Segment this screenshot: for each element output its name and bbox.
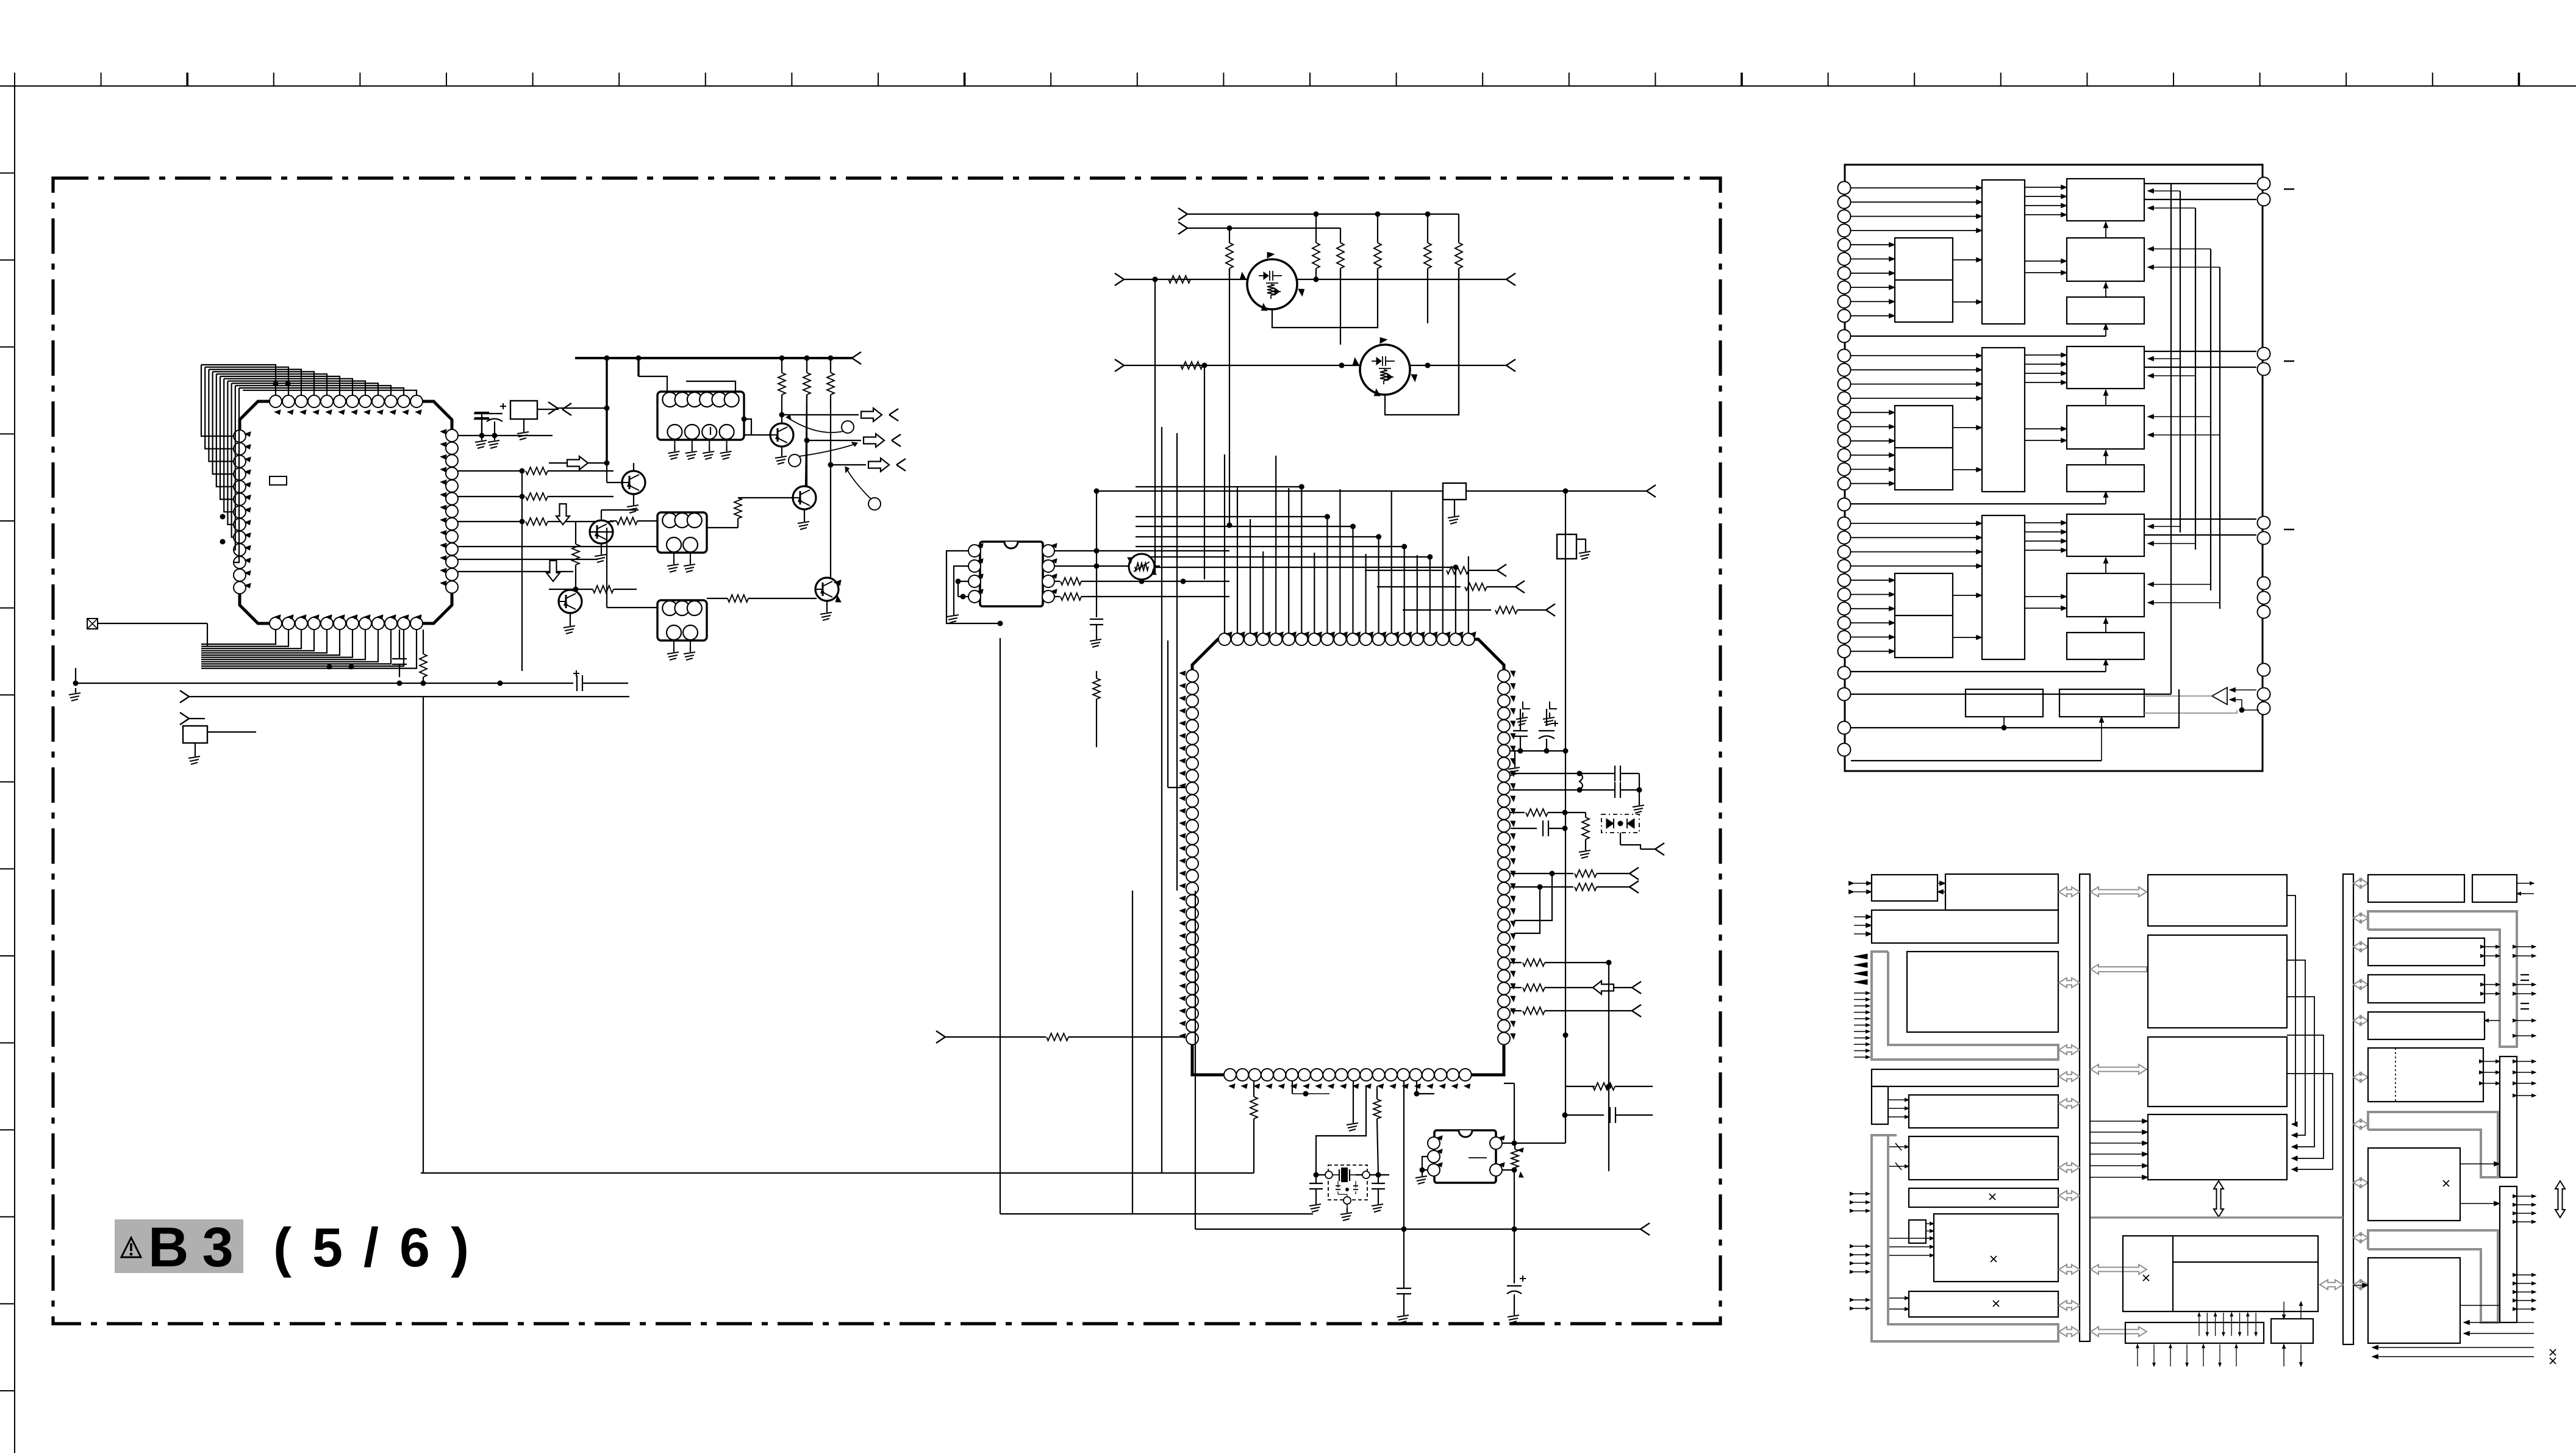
resistor R11	[572, 544, 579, 565]
signal arrow A5	[864, 434, 884, 447]
IC U1 (left QFP microprocessor)	[240, 401, 452, 623]
block M2	[2148, 935, 2287, 1028]
vertical arrow VA1	[2214, 1181, 2224, 1217]
block L-A1	[1872, 875, 1937, 901]
connector J20	[1640, 848, 1655, 850]
Q8 loop wires	[1385, 268, 1459, 415]
capacitor C11	[1315, 1175, 1317, 1183]
wire net long	[1097, 490, 1443, 492]
dual FET Q7	[1247, 259, 1297, 309]
dual FET Q8	[1360, 345, 1410, 395]
resistor R5	[778, 373, 785, 395]
block M4	[2148, 1114, 2287, 1180]
block R8	[2368, 1148, 2460, 1221]
connector J8	[548, 402, 557, 408]
rail x2638	[1608, 963, 1609, 1171]
U1 bottom fan-out wires	[201, 630, 276, 644]
module M3	[1443, 483, 1466, 500]
M5-BB2 arrow	[2320, 1280, 2343, 1290]
module boundary outline (dash-dot)	[53, 178, 1720, 1324]
U4 right wires	[1054, 550, 1229, 551]
block M5	[2123, 1236, 2318, 1311]
resistor R26	[1511, 873, 1573, 874]
transistor Q4	[793, 486, 816, 509]
resistor R27	[1511, 886, 1573, 888]
resistor R13	[1229, 228, 1230, 243]
connector J16	[1515, 581, 1525, 587]
block L-F	[1909, 1291, 2058, 1317]
block R10	[2368, 1258, 2460, 1343]
resistor R30	[1511, 1010, 1522, 1011]
wire drop 2	[637, 358, 639, 376]
M4 left inputs	[2090, 1121, 2148, 1122]
resistor R21	[1365, 570, 1442, 571]
page margin rulers	[15, 85, 2576, 87]
U2 left rail	[1132, 891, 1133, 1214]
capacitor C12	[1378, 1175, 1379, 1183]
wire pin jog	[1416, 1081, 1417, 1094]
block L-C1	[1872, 1069, 2058, 1086]
U3 left wires	[1422, 1157, 1428, 1170]
resistor R10	[593, 586, 614, 593]
capacitor C1	[474, 413, 490, 414]
fork J19	[936, 1031, 945, 1037]
U1 right wires with series resistors R1-R3	[458, 470, 522, 472]
signal arrow A6	[868, 458, 889, 472]
resistor R18	[1458, 214, 1459, 243]
wire link 2	[807, 440, 861, 441]
ground G2	[195, 752, 196, 756]
capacitor C2 (polarized)	[487, 413, 503, 414]
block R1	[2368, 875, 2464, 902]
resistor R36	[1054, 596, 1060, 597]
connector J25	[1640, 1223, 1650, 1229]
block R4	[2368, 975, 2485, 1003]
arrow A7	[1593, 981, 1614, 994]
transistor Q6	[815, 578, 839, 601]
rail down x2567	[1565, 491, 1566, 1143]
signal arrow A3 (down)	[546, 561, 560, 581]
regulator module M1	[510, 401, 537, 419]
connector J18	[1647, 485, 1656, 491]
U4 left wires	[946, 551, 1000, 623]
transistor Q5	[559, 590, 582, 613]
block diagram 1 frame	[1845, 165, 2263, 771]
wire bottom rail	[76, 683, 427, 684]
capacitor C13 (pol)	[1507, 1285, 1522, 1286]
resistor R16	[1377, 214, 1378, 243]
ground G6	[1353, 1081, 1354, 1118]
wire input 1	[549, 462, 607, 464]
block R5	[2368, 1012, 2485, 1039]
resistor R9	[734, 498, 742, 518]
diagram1 feedback rails	[2180, 191, 2181, 533]
resistor R32	[1253, 1081, 1254, 1097]
crystal feed wire	[1316, 1086, 1366, 1175]
resistor R31	[1565, 1086, 1595, 1087]
resonator array Z1	[657, 392, 744, 440]
L-A wires	[1937, 883, 1945, 884]
node bus lower-left	[98, 623, 207, 624]
wire collector link	[782, 414, 859, 415]
resistor R34	[1511, 1149, 1519, 1168]
Q7 loop wires	[1272, 268, 1378, 328]
stub S1	[1523, 701, 1530, 709]
block R3	[2368, 938, 2485, 966]
wire input line 1	[1124, 279, 1506, 280]
wire lower bus	[189, 696, 629, 697]
connector J12	[1506, 273, 1515, 279]
signal arrow A1	[567, 456, 588, 470]
connector J15	[1497, 564, 1506, 570]
connector J14	[1506, 359, 1515, 365]
block N	[2125, 1322, 2264, 1343]
diagram1 blocks	[1982, 180, 2025, 324]
right edge arrows 2	[2517, 1196, 2536, 1197]
gray frame GB2	[1872, 1135, 2058, 1341]
GB1 input arrows	[1854, 954, 1867, 959]
adjust point P3	[868, 498, 881, 510]
power bus wire	[575, 357, 852, 359]
wire y1231	[1511, 750, 1565, 752]
resistor R4	[423, 630, 424, 654]
resistor R33	[1376, 1086, 1378, 1099]
M4 input staircase wires	[2287, 895, 2295, 1124]
connector J9	[1178, 208, 1187, 214]
loop wires	[1514, 874, 1552, 920]
U3 right wires	[1502, 1143, 1514, 1144]
capacitor C4 (electrolytic)	[427, 683, 573, 684]
transistor Q3	[590, 520, 613, 544]
bar RB3	[2500, 1186, 2517, 1322]
module M4	[1557, 534, 1576, 559]
resistor R24	[1511, 812, 1525, 813]
resistor R15	[1340, 228, 1341, 243]
stub S2	[1550, 701, 1557, 709]
resistor R35	[1054, 581, 1060, 582]
sheet label background	[115, 1219, 243, 1273]
wire L-C join	[1639, 773, 1640, 800]
gray frame GB1	[1872, 952, 2058, 1060]
wire net V2	[1187, 228, 1340, 229]
bar RB2	[2500, 1057, 2517, 1177]
block R1b	[2472, 875, 2517, 902]
block L-B1	[1907, 952, 2058, 1032]
wire Z2 right	[707, 527, 738, 528]
long rail wires	[1154, 279, 1156, 573]
wire link 3	[831, 464, 866, 465]
signal arrow A2 (down)	[556, 504, 570, 525]
capacitor C9	[1511, 828, 1537, 829]
connector J4	[852, 352, 861, 358]
connector J21	[1630, 867, 1639, 874]
diode pair D1 D2 (dashed box)	[1601, 814, 1639, 833]
adjust point P2	[789, 454, 801, 467]
svg-text:(5/6): (5/6)	[273, 1218, 490, 1279]
block M1	[2148, 875, 2287, 926]
capacitor C7	[1580, 773, 1615, 774]
wire long rail y1923	[421, 1172, 1254, 1174]
connector J22	[1630, 881, 1639, 887]
block L-D2	[1909, 1188, 2058, 1207]
IC U2 (main LSI QFP)	[1192, 639, 1504, 1075]
connector J11	[1115, 273, 1124, 279]
connector J10	[1178, 222, 1187, 228]
connector J7	[896, 459, 906, 465]
resistor R8	[617, 517, 637, 525]
bus arrows left	[2059, 887, 2080, 897]
block M3	[2148, 1037, 2287, 1107]
bus arrows mid	[2091, 887, 2147, 897]
wire net V1	[1187, 213, 1459, 215]
M5 bottom arrows	[2199, 1313, 2200, 1336]
bus arrows right	[2353, 878, 2368, 888]
IC U1 internal marker	[270, 476, 287, 485]
warning symbol	[121, 1238, 141, 1257]
adjust point P1	[842, 421, 854, 433]
resistor R7	[827, 373, 834, 395]
diagram1 input pins	[1838, 182, 1851, 195]
block O	[2271, 1319, 2313, 1343]
Z1 top wires	[639, 376, 667, 392]
resistor R12	[728, 595, 748, 602]
transistor Q2	[622, 471, 645, 494]
terminal X1 (crossed box)	[87, 619, 98, 629]
gray frame GR3	[2368, 1230, 2498, 1322]
resistor R14	[1315, 214, 1317, 243]
resonator Z3	[657, 600, 707, 640]
block L-E	[1934, 1214, 2058, 1282]
ground G5	[1514, 751, 1515, 762]
capacitor C5	[1520, 709, 1521, 731]
wire long bottom	[1000, 1213, 1313, 1214]
rail x1798	[1096, 491, 1097, 617]
right edge arrows 1	[2517, 946, 2536, 947]
block L-C2	[1909, 1095, 2058, 1128]
connector J24	[1632, 1005, 1641, 1011]
resistor R23	[1403, 609, 1491, 611]
resistor R17	[1427, 214, 1428, 243]
resistor R22	[1377, 586, 1461, 587]
transistor Q9 (with adjust arrows)	[1129, 554, 1154, 579]
connector J5	[889, 409, 898, 415]
resistor R29	[1511, 987, 1522, 988]
connector J1	[537, 409, 559, 410]
U2 top wire bundle	[1301, 487, 1302, 633]
wire Z1 out	[744, 419, 751, 435]
capacitor C6 (pol)	[1539, 730, 1555, 731]
gray link line	[2091, 1216, 2343, 1219]
diagram1 output pins	[2258, 178, 2270, 190]
crystal X2 wires	[1316, 1174, 1333, 1175]
block R6	[2368, 1048, 2483, 1102]
resonator Z2	[657, 512, 707, 553]
connector J6	[892, 434, 901, 440]
connector J13	[1115, 359, 1124, 365]
signal arrow A4	[861, 408, 882, 422]
inductor L1	[1511, 773, 1580, 774]
transistor Q1	[770, 423, 793, 447]
capacitor C14	[1403, 1081, 1404, 1288]
bus bar BB2	[2343, 874, 2353, 1344]
gray frame GR1	[2368, 911, 2517, 1047]
U2 left pin stubs	[1167, 640, 1168, 787]
wire drop 1	[606, 358, 607, 463]
diagram1 bottom blocks	[1966, 689, 2043, 717]
connector J2	[180, 691, 189, 697]
wire y2015	[1195, 1229, 1640, 1230]
capacitor C10	[1565, 1114, 1604, 1116]
wire to J18	[1466, 490, 1647, 492]
resistor R25	[1585, 813, 1586, 817]
relay module M2	[183, 726, 207, 743]
connector J17	[1546, 604, 1555, 610]
left edge arrows	[1854, 1193, 1870, 1194]
block L-A3	[1872, 910, 2058, 943]
wire input line 2	[1124, 365, 1506, 366]
gray frame GR2	[2368, 1112, 2498, 1177]
block L-D1	[1909, 1136, 2058, 1180]
svg-text:B3: B3	[148, 1216, 247, 1279]
connector J3	[180, 712, 189, 719]
IC U4 (8-pin)	[980, 542, 1043, 606]
capacitor C8	[1580, 789, 1615, 791]
resistor R28	[1511, 962, 1522, 963]
connector J23	[1632, 981, 1641, 988]
block L-A2	[1945, 874, 2058, 910]
IC U3 (8-pin)	[1434, 1130, 1496, 1183]
resistor R20	[1181, 362, 1203, 369]
bus bar BB1	[2080, 874, 2090, 1341]
crystal X2 (dashed)	[1328, 1165, 1367, 1200]
U1 bus wires (top/left fan-out)	[201, 365, 276, 395]
N bottom arrows	[2137, 1344, 2138, 1366]
bottom long arrows	[2464, 1322, 2534, 1323]
wire Z3 feed	[607, 607, 657, 608]
vertical arrow VA2	[2555, 1181, 2565, 1218]
wire U1 pin to decoupling	[458, 435, 553, 436]
resistor R19	[1168, 276, 1190, 283]
capacitor C3	[399, 630, 400, 659]
resistor R6	[803, 373, 810, 395]
